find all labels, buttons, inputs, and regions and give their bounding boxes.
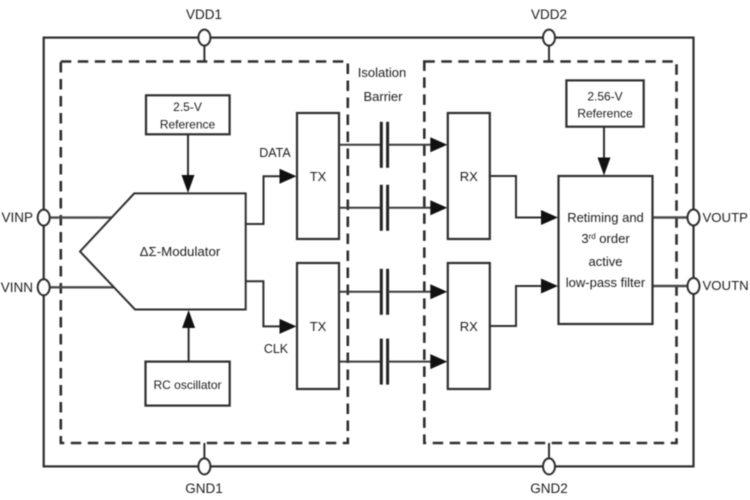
block RX1	[448, 113, 490, 239]
wire VINN to modulator	[50, 286, 114, 288]
net label Isolation Barrier	[358, 65, 406, 104]
block TX1	[297, 113, 339, 239]
pin VINP	[1, 210, 49, 226]
wire capacitor C4 to RX2 with arrow	[388, 354, 448, 369]
svg-text:TX: TX	[310, 169, 327, 184]
svg-text:VDD1: VDD1	[186, 7, 222, 22]
pin VDD2	[531, 7, 567, 46]
pin VDD1	[186, 7, 222, 46]
svg-text:Barrier: Barrier	[363, 89, 403, 104]
pin VOUTP	[688, 210, 749, 226]
left isolated-side dashed boundary	[61, 62, 348, 444]
svg-text:DATA: DATA	[259, 146, 291, 160]
wire GND2 stub	[548, 443, 550, 464]
svg-text:VOUTP: VOUTP	[703, 210, 749, 225]
wire VOUTP from filter	[653, 216, 688, 218]
wire capacitor C2 to RX1 with arrow	[388, 200, 448, 215]
svg-text:Retiming and: Retiming and	[567, 210, 644, 225]
wire RX2 output to filter with arrow	[490, 279, 558, 327]
svg-text:ΔΣ-Modulator: ΔΣ-Modulator	[140, 244, 221, 259]
capacitor C2	[381, 185, 387, 231]
right output-side dashed boundary	[424, 62, 676, 444]
wire oscillator to modulator with arrow	[182, 310, 195, 362]
wire VDD1 stub	[203, 40, 205, 62]
svg-text:TX: TX	[310, 319, 327, 334]
capacitor C4	[381, 339, 387, 385]
wire TX2 lower output to capacitor C4	[339, 361, 381, 363]
svg-text:active: active	[589, 254, 623, 269]
svg-text:low-pass filter: low-pass filter	[566, 275, 646, 290]
capacitor C1	[381, 122, 387, 168]
wire TX2 upper output to capacitor C3	[339, 291, 381, 293]
svg-text:GND1: GND1	[185, 481, 223, 496]
wire CLK: modulator to TX2 with arrow	[246, 281, 297, 334]
wire DATA: modulator to TX1 with arrow	[246, 169, 297, 224]
svg-text:2.5-V: 2.5-V	[173, 100, 202, 114]
wire TX1 upper output to capacitor C1	[339, 144, 381, 146]
pin VOUTN	[688, 278, 749, 294]
wire 2.56-V reference to filter with arrow	[598, 127, 611, 176]
svg-text:Reference: Reference	[160, 118, 216, 132]
wire VDD2 stub	[548, 40, 550, 62]
pin VINN	[1, 279, 50, 295]
svg-text:VDD2: VDD2	[531, 7, 567, 22]
block TX2	[297, 263, 339, 389]
block retiming low-pass filter	[559, 176, 653, 324]
wire reference to modulator with arrow	[182, 134, 195, 193]
block RC oscillator	[146, 362, 230, 406]
block 2.56-V Reference	[566, 80, 643, 126]
capacitor C3	[381, 269, 387, 315]
block 2.5-V Reference	[146, 95, 230, 134]
pin GND2	[530, 458, 568, 496]
wire TX1 lower output to capacitor C2	[339, 207, 381, 209]
wire RX1 output to filter with arrow	[490, 176, 558, 225]
svg-text:GND2: GND2	[530, 481, 568, 496]
svg-text:VOUTN: VOUTN	[703, 278, 749, 293]
wire VINP to modulator	[50, 216, 112, 218]
svg-text:RX: RX	[460, 169, 478, 184]
svg-text:VINP: VINP	[1, 210, 33, 225]
svg-text:2.56-V: 2.56-V	[587, 90, 622, 104]
wire VOUTN from filter	[653, 285, 688, 287]
delta-sigma modulator U1	[80, 193, 246, 309]
wire capacitor C3 to RX2 with arrow	[388, 284, 448, 299]
pin GND1	[185, 458, 223, 496]
svg-text:Reference: Reference	[577, 107, 633, 121]
outer package border	[44, 38, 694, 467]
svg-text:Isolation: Isolation	[358, 65, 406, 80]
svg-text:VINN: VINN	[1, 280, 33, 295]
block RX2	[448, 263, 490, 389]
svg-text:CLK: CLK	[264, 342, 289, 356]
svg-text:RC oscillator: RC oscillator	[153, 378, 221, 392]
svg-text:RX: RX	[460, 319, 478, 334]
wire GND1 stub	[203, 443, 205, 464]
wire capacitor C1 to RX1 with arrow	[388, 137, 448, 152]
